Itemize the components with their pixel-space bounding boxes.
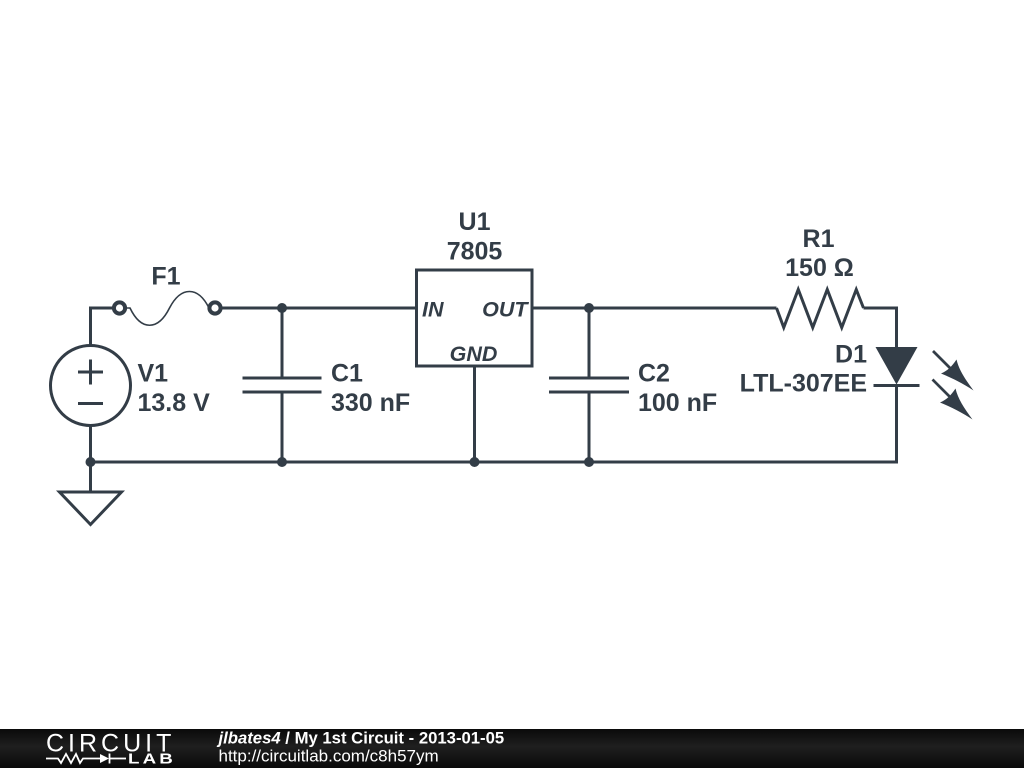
- svg-text:OUT: OUT: [482, 298, 529, 322]
- wire V1 top to fuse F1 left terminal: [91, 308, 114, 347]
- CircuitLab logo resistor-diode symbol: [46, 754, 126, 764]
- resistor R1: [777, 290, 864, 328]
- fuse F1: [114, 292, 221, 326]
- svg-text:LAB: LAB: [128, 750, 176, 767]
- junction dot node A (C1 top): [277, 303, 287, 313]
- svg-text:V1: V1: [138, 360, 169, 388]
- wire V1 bottom to bottom rail: [89, 424, 92, 462]
- svg-text:R1: R1: [803, 225, 835, 253]
- svg-text:LTL-307EE: LTL-307EE: [740, 370, 867, 398]
- wire resistor R1 to LED D1 anode: [864, 308, 897, 347]
- wire fuse F1 right terminal to U1 IN pin: [221, 307, 417, 310]
- wire U1 OUT pin to resistor R1: [532, 307, 777, 310]
- junction dot node B (C2 top): [584, 303, 594, 313]
- junction dot ground rail left: [86, 457, 96, 467]
- svg-text:13.8 V: 13.8 V: [138, 389, 211, 417]
- ground: [60, 492, 122, 525]
- svg-text:U1: U1: [459, 208, 491, 236]
- svg-text:http://circuitlab.com/c8h57ym: http://circuitlab.com/c8h57ym: [219, 747, 439, 766]
- junction dot U1 GND: [470, 457, 480, 467]
- LED D1: [874, 347, 974, 420]
- svg-text:100 nF: 100 nF: [638, 389, 717, 417]
- svg-text:150 Ω: 150 Ω: [785, 254, 854, 282]
- wire C2 bottom branch: [588, 394, 591, 463]
- voltage source V1: [51, 346, 131, 426]
- wire LED D1 cathode to bottom rail and back to ground node: [91, 386, 897, 463]
- svg-text:C1: C1: [331, 360, 363, 388]
- wire C2 top branch: [588, 308, 591, 377]
- capacitor C1: [243, 378, 322, 392]
- capacitor C2: [549, 378, 629, 392]
- wire C1 bottom branch: [281, 394, 284, 463]
- svg-text:330 nF: 330 nF: [331, 389, 410, 417]
- svg-text:F1: F1: [151, 263, 180, 291]
- svg-text:7805: 7805: [447, 238, 503, 266]
- svg-text:IN: IN: [422, 298, 444, 322]
- svg-text:D1: D1: [835, 341, 867, 369]
- junction dot C2 bottom: [584, 457, 594, 467]
- svg-text:jlbates4 / My 1st Circuit - 20: jlbates4 / My 1st Circuit - 2013-01-05: [217, 729, 505, 748]
- CircuitLab logo diode triangle: [100, 754, 109, 763]
- wire C1 top branch: [281, 308, 284, 377]
- junction dot C1 bottom: [277, 457, 287, 467]
- voltage regulator U1 box: [417, 270, 533, 366]
- svg-text:C2: C2: [638, 360, 670, 388]
- svg-text:GND: GND: [450, 342, 498, 366]
- wire U1 GND pin stub: [473, 366, 476, 462]
- wire ground stub: [89, 462, 92, 492]
